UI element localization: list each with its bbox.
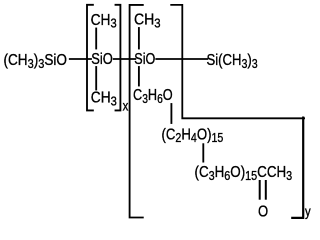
svg-text:CH3: CH3 [134, 11, 161, 31]
svg-text:y: y [305, 203, 311, 220]
svg-text:(C2H4O)15: (C2H4O)15 [162, 126, 224, 145]
svg-text:CH3: CH3 [91, 89, 117, 109]
svg-text:SiO: SiO [134, 51, 155, 69]
svg-text:SiO: SiO [91, 51, 112, 69]
svg-text:Si(CH3)3: Si(CH3)3 [207, 52, 259, 71]
svg-text:C3H6O: C3H6O [133, 87, 173, 106]
svg-text:(C3H6O)15CCH3: (C3H6O)15CCH3 [195, 164, 293, 183]
svg-text:(CH3)3SiO: (CH3)3SiO [4, 52, 67, 71]
svg-text:x: x [123, 97, 129, 114]
svg-text:CH3: CH3 [91, 11, 117, 31]
svg-text:O: O [258, 203, 268, 221]
